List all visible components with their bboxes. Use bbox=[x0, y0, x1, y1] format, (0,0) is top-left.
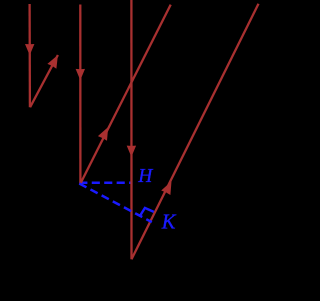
dashed perpendicular BK from vertex B to point K on reflected ray C (wire) bbox=[79, 184, 152, 223]
arrowhead on incident ray C bbox=[127, 146, 136, 157]
svg-text:H: H bbox=[137, 166, 153, 187]
arrowhead on reflected ray A bbox=[47, 55, 58, 69]
reflected ray B (wire) bbox=[80, 5, 170, 184]
arrowhead on reflected ray B bbox=[98, 127, 108, 141]
arrowhead on reflected ray C bbox=[161, 181, 171, 195]
reflected ray C (wire) bbox=[132, 4, 259, 259]
reflected ray A (wire) bbox=[30, 55, 58, 107]
arrowhead on incident ray B bbox=[76, 69, 85, 80]
incident ray C (wire) bbox=[130, 0, 132, 259]
arrowhead on incident ray A bbox=[25, 44, 34, 55]
incident ray B (wire) bbox=[79, 5, 81, 184]
incident ray A (wire) bbox=[28, 4, 31, 107]
svg-text:K: K bbox=[161, 212, 177, 234]
dashed perpendicular BH from vertex B to point H on ray C (wire) bbox=[79, 182, 131, 185]
right-angle mark at K bbox=[140, 208, 154, 217]
